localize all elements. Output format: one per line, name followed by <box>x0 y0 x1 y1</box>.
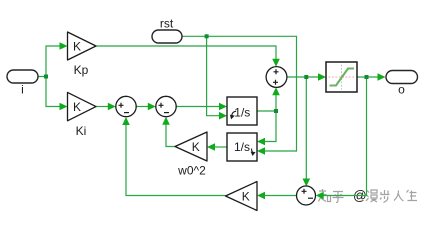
svg-text:K: K <box>73 39 81 53</box>
svg-text:K: K <box>73 100 81 114</box>
svg-text:o: o <box>398 83 405 97</box>
svg-text:K: K <box>192 140 200 154</box>
svg-text:K: K <box>242 189 250 203</box>
svg-text:1/s: 1/s <box>234 140 250 154</box>
svg-text:Kp: Kp <box>74 63 89 77</box>
svg-text:w0^2: w0^2 <box>177 164 206 178</box>
svg-text:Ki: Ki <box>76 124 87 138</box>
svg-text:rst: rst <box>160 17 174 31</box>
svg-text:1/s: 1/s <box>234 106 250 120</box>
svg-text:i: i <box>21 83 24 97</box>
